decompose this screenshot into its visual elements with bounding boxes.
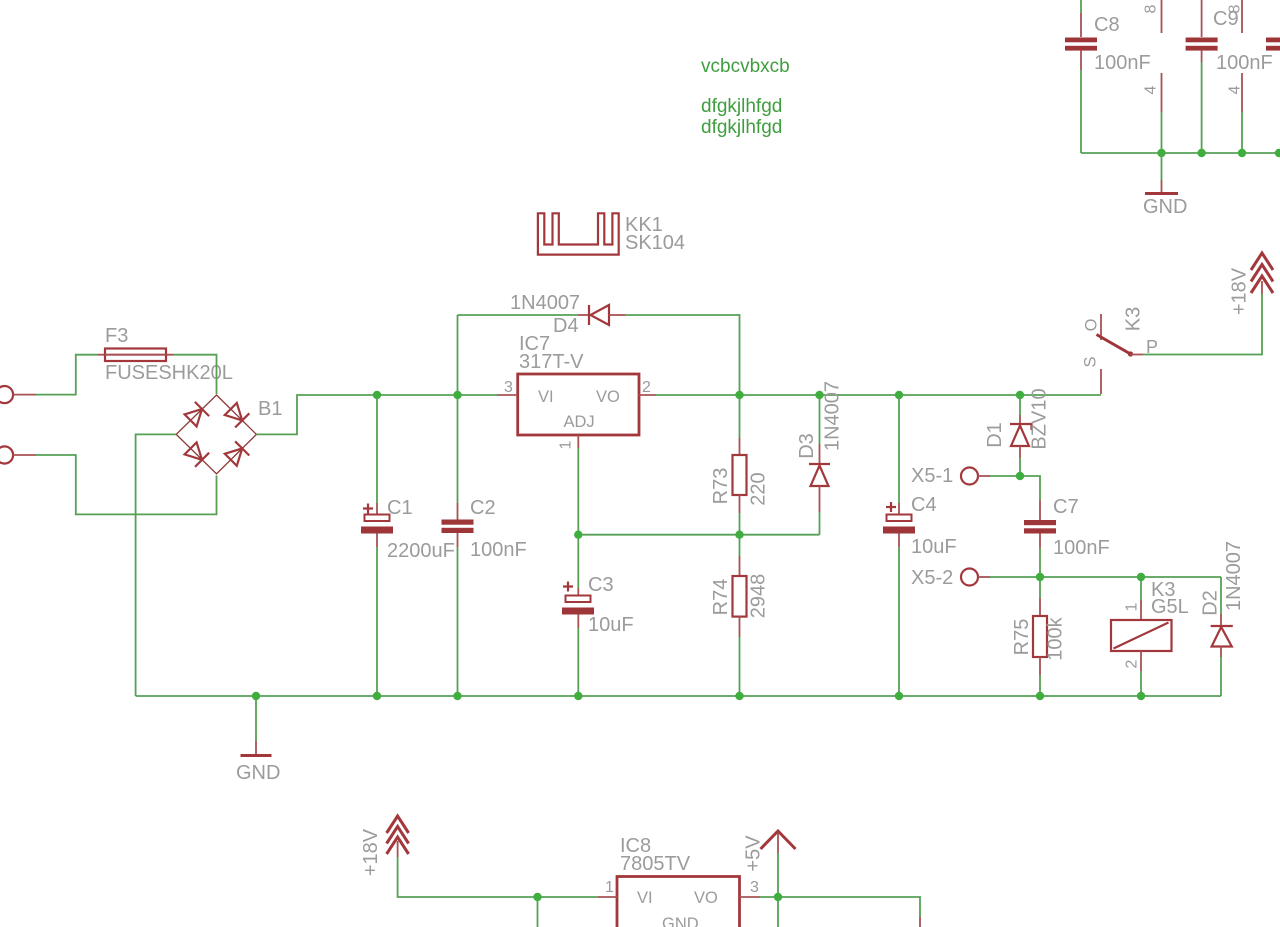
input terminal (bottom) bbox=[0, 446, 36, 463]
wire input1 to fuse bbox=[36, 355, 98, 395]
wire input2 to bridge bottom bbox=[36, 455, 217, 514]
supply +18V (top right) bbox=[1229, 253, 1274, 315]
capacitor C4 10uF bbox=[883, 395, 957, 696]
svg-text:10uF: 10uF bbox=[588, 614, 634, 636]
IC power pin 8 (stub) bbox=[1143, 0, 1162, 33]
input terminal (top) bbox=[0, 386, 36, 403]
wire rail to D4 bbox=[458, 314, 579, 316]
svg-text:K3: K3 bbox=[1123, 307, 1145, 331]
wire IC8 output bbox=[760, 897, 920, 917]
B1 diode top-left bbox=[185, 409, 202, 426]
capacitor C8 bbox=[1065, 0, 1151, 153]
svg-text:R73: R73 bbox=[710, 468, 732, 505]
svg-text:2: 2 bbox=[642, 379, 651, 396]
capacitor C7 100nF bbox=[1024, 496, 1110, 577]
svg-text:C2: C2 bbox=[470, 497, 496, 519]
heatsink KK1 SK104 bbox=[538, 213, 685, 254]
B1 diode bottom-right bbox=[225, 448, 242, 465]
ground GND (left) bbox=[236, 696, 280, 784]
svg-text:VO: VO bbox=[596, 388, 620, 406]
svg-text:+5V: +5V bbox=[743, 835, 765, 872]
svg-text:3: 3 bbox=[750, 879, 759, 896]
node dots misc bbox=[1016, 472, 1024, 480]
svg-text:R74: R74 bbox=[710, 579, 732, 616]
capacitor C9 bbox=[1186, 0, 1273, 153]
svg-text:+18V: +18V bbox=[360, 828, 382, 876]
svg-text:3: 3 bbox=[504, 379, 513, 396]
svg-text:C3: C3 bbox=[588, 574, 614, 596]
node dots +rail bbox=[373, 391, 381, 399]
svg-text:1N4007: 1N4007 bbox=[1223, 541, 1245, 611]
svg-text:BZV10: BZV10 bbox=[1029, 388, 1051, 449]
svg-text:+18V: +18V bbox=[1229, 267, 1251, 315]
svg-text:F3: F3 bbox=[105, 325, 128, 347]
svg-text:vcbcvbxcb: vcbcvbxcb bbox=[701, 56, 790, 77]
svg-text:7805TV: 7805TV bbox=[620, 853, 691, 875]
B1 diode bottom-left bbox=[185, 442, 202, 459]
terminal X5-2 bbox=[911, 567, 990, 589]
svg-text:VO: VO bbox=[694, 889, 718, 907]
node dots on top-right GND bus bbox=[1157, 149, 1165, 157]
diode D4 1N4007 bbox=[510, 292, 625, 337]
svg-text:O: O bbox=[1083, 318, 1101, 331]
node dots IC8 row bbox=[533, 893, 541, 901]
supply +5V bbox=[743, 831, 796, 897]
svg-text:220: 220 bbox=[748, 472, 770, 505]
pin 3 bbox=[740, 896, 761, 898]
supply +18V (bottom left) bbox=[360, 816, 409, 876]
svg-text:8: 8 bbox=[1227, 4, 1244, 13]
B1 diode top-right bbox=[225, 403, 242, 420]
pin 1 bbox=[598, 896, 617, 898]
IC power pin 4 (stub to GND) bbox=[1143, 73, 1162, 153]
svg-text:1: 1 bbox=[558, 440, 575, 449]
voltage regulator IC8 7805TV bbox=[598, 835, 760, 927]
ground GND (top right) bbox=[1143, 153, 1187, 218]
svg-text:S: S bbox=[1082, 356, 1100, 367]
svg-text:FUSESHK20L: FUSESHK20L bbox=[105, 362, 233, 384]
fuse F3 FUSESHK20L bbox=[98, 325, 233, 384]
wire branch down (left of IC8) bbox=[537, 897, 539, 927]
svg-text:C4: C4 bbox=[911, 494, 937, 516]
svg-text:2: 2 bbox=[1124, 659, 1141, 668]
svg-text:2200uF: 2200uF bbox=[387, 540, 455, 562]
svg-text:100nF: 100nF bbox=[1053, 537, 1110, 559]
diode D3 1N4007 bbox=[796, 381, 844, 535]
resistor R75 100k bbox=[1011, 577, 1067, 696]
svg-text:C1: C1 bbox=[387, 497, 413, 519]
wire X5-2 node bbox=[990, 576, 1221, 578]
svg-text:C8: C8 bbox=[1094, 14, 1120, 36]
svg-text:VI: VI bbox=[637, 889, 653, 907]
capacitor at right edge (partial) bbox=[1266, 38, 1280, 51]
svg-text:100nF: 100nF bbox=[1094, 52, 1151, 74]
capacitor C1 2200uF bbox=[361, 395, 455, 696]
svg-text:GND: GND bbox=[236, 762, 280, 784]
svg-text:317T-V: 317T-V bbox=[519, 351, 584, 373]
svg-text:1N4007: 1N4007 bbox=[822, 381, 844, 451]
wire bridge right to +rail bbox=[256, 395, 497, 434]
svg-text:100nF: 100nF bbox=[1216, 52, 1273, 74]
resistor R74 2948 bbox=[710, 535, 770, 696]
pin 3 (VI) bbox=[497, 394, 518, 396]
wire +18V to IC8 bbox=[398, 857, 598, 897]
relay contact K3 (switch) bbox=[1082, 307, 1159, 394]
pin 2 (VO) bbox=[639, 394, 656, 396]
relay coil K3 G5L bbox=[1111, 577, 1189, 696]
IC power pin 8 (stub, second) bbox=[1227, 0, 1244, 33]
svg-text:ADJ: ADJ bbox=[564, 413, 595, 431]
wire P to +18V bbox=[1143, 294, 1262, 355]
svg-text:B1: B1 bbox=[258, 398, 282, 420]
svg-text:GND: GND bbox=[1143, 196, 1187, 218]
svg-text:SK104: SK104 bbox=[625, 232, 685, 254]
diode D2 1N4007 bbox=[1200, 541, 1246, 696]
svg-text:8: 8 bbox=[1143, 4, 1160, 13]
wire output rail bbox=[656, 394, 1101, 396]
svg-text:X5-2: X5-2 bbox=[911, 567, 953, 589]
bridge rectifier B1 bbox=[176, 395, 282, 474]
resistor R73 220 bbox=[710, 438, 770, 535]
svg-text:GND: GND bbox=[662, 915, 699, 927]
node dots ground bus bbox=[252, 692, 260, 700]
wire D4 to R73 top node bbox=[625, 315, 740, 438]
svg-text:X5-1: X5-1 bbox=[911, 465, 953, 487]
svg-text:2948: 2948 bbox=[748, 574, 770, 619]
wire fuse to bridge top bbox=[173, 355, 217, 394]
voltage regulator IC7 317T-V bbox=[497, 333, 656, 449]
svg-text:1N4007: 1N4007 bbox=[510, 292, 580, 314]
svg-text:4: 4 bbox=[1227, 85, 1244, 94]
zener diode D1 BZV10 bbox=[984, 388, 1051, 476]
svg-text:D3: D3 bbox=[796, 433, 818, 459]
svg-text:R75: R75 bbox=[1011, 619, 1033, 656]
svg-text:D2: D2 bbox=[1200, 590, 1222, 616]
wire X5-1 node bbox=[990, 476, 1040, 500]
svg-text:D1: D1 bbox=[984, 422, 1006, 448]
capacitor C2 100nF bbox=[442, 497, 527, 561]
svg-text:4: 4 bbox=[1143, 85, 1160, 94]
wire GND bus top right bbox=[1081, 152, 1280, 154]
svg-text:10uF: 10uF bbox=[911, 536, 957, 558]
wire ground bus bbox=[136, 695, 1221, 697]
svg-text:D4: D4 bbox=[553, 315, 579, 337]
svg-text:dfgkjlhfgd: dfgkjlhfgd bbox=[701, 96, 782, 117]
wire ADJ node bbox=[577, 448, 579, 535]
svg-text:dfgkjlhfgd: dfgkjlhfgd bbox=[701, 117, 782, 138]
capacitor C3 10uF bbox=[562, 535, 634, 696]
pin 1 (ADJ) bbox=[577, 435, 579, 448]
svg-text:VI: VI bbox=[538, 388, 554, 406]
svg-text:100nF: 100nF bbox=[470, 539, 527, 561]
svg-text:1: 1 bbox=[1124, 602, 1141, 611]
wire bridge left to ground bus bbox=[136, 434, 177, 696]
wire vertical C2 branch bbox=[457, 315, 459, 503]
IC power pin 4 (stub, second) bbox=[1227, 73, 1244, 153]
terminal X5-1 bbox=[911, 465, 990, 487]
wire branch down (right of IC8) bbox=[777, 897, 779, 927]
svg-text:100k: 100k bbox=[1045, 616, 1067, 660]
svg-text:C7: C7 bbox=[1053, 496, 1079, 518]
svg-text:1: 1 bbox=[605, 879, 614, 896]
svg-text:G5L: G5L bbox=[1151, 596, 1189, 618]
